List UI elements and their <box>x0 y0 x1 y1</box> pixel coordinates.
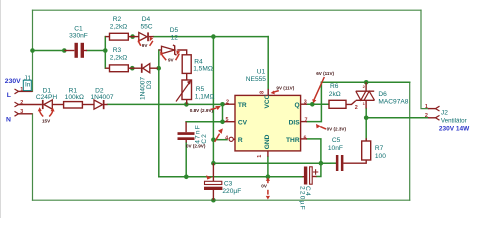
svg-text:J2: J2 <box>441 110 448 117</box>
wire bottom frame <box>33 199 410 201</box>
wire J2 pin2 row <box>366 117 428 119</box>
svg-text:VCC: VCC <box>264 94 271 108</box>
svg-text:THR: THR <box>286 137 300 144</box>
wire C2 top lead <box>185 122 187 132</box>
svg-text:R2: R2 <box>113 16 122 23</box>
node R5-TR row junction <box>184 102 189 107</box>
svg-text:3: 3 <box>20 109 23 115</box>
wire gnd rail <box>159 176 303 178</box>
node R3-D3 junction <box>130 66 135 71</box>
svg-text:220µF: 220µF <box>222 188 241 195</box>
svg-text:C1: C1 <box>74 25 83 32</box>
svg-text:330nF: 330nF <box>69 32 88 39</box>
wire Q row <box>307 103 329 105</box>
zener D5 <box>162 46 175 54</box>
wire R2-D4 lead <box>128 36 139 38</box>
red pin numbers <box>20 84 428 158</box>
svg-text:2: 2 <box>355 105 358 111</box>
wire J2 pin2 stub <box>428 117 436 119</box>
resistor R6 <box>329 100 346 108</box>
svg-text:GND: GND <box>264 134 271 149</box>
svg-text:1N4007: 1N4007 <box>90 94 113 101</box>
wire N drop <box>32 114 34 200</box>
wire VCC down to pin8 <box>267 37 269 89</box>
wire VCC rail <box>154 36 269 38</box>
node VCC rail junction <box>211 34 216 39</box>
wire R2 left lead <box>105 36 109 38</box>
capacitor C5 <box>336 155 339 171</box>
svg-text:2: 2 <box>425 113 428 119</box>
wire pin2 TR stub <box>225 103 236 105</box>
wire R7 bottom to C5 <box>343 160 366 163</box>
wire R3-D3 lead <box>128 67 141 69</box>
diode D2 <box>94 100 103 109</box>
svg-text:0V (2.9V): 0V (2.9V) <box>186 143 206 148</box>
connector J2 pin chevrons <box>436 106 440 111</box>
svg-text:CV: CV <box>238 119 248 126</box>
node R reset junction <box>211 137 216 142</box>
capacitor C4 <box>304 167 307 185</box>
wire C3 line right <box>213 162 330 164</box>
svg-text:230V 14W: 230V 14W <box>439 125 470 132</box>
svg-text:TR: TR <box>238 102 247 109</box>
svg-text:R5: R5 <box>196 86 205 93</box>
svg-text:D4: D4 <box>142 16 151 23</box>
J1 box <box>23 80 31 90</box>
svg-text:0.8V (2.9V): 0.8V (2.9V) <box>190 108 214 113</box>
svg-text:R: R <box>238 137 243 144</box>
wire D5 cathode to R4 lead <box>177 50 186 55</box>
wire D2/TR row <box>108 103 225 105</box>
wire R7 top lead <box>365 138 367 141</box>
node R2-D4 junction <box>130 34 135 39</box>
svg-text:9V (11V): 9V (11V) <box>276 86 294 91</box>
svg-text:1,5MΩ: 1,5MΩ <box>193 65 213 72</box>
resistor R3 <box>110 65 129 72</box>
trimmer R5 <box>182 80 192 100</box>
wire D5 anode lead <box>159 49 162 51</box>
svg-text:U1: U1 <box>257 68 266 75</box>
resistor R7 <box>362 141 371 160</box>
svg-text:0V (2.3V): 0V (2.3V) <box>327 126 347 131</box>
wire right riser <box>409 82 411 200</box>
wire R1-D2 lead <box>82 104 94 106</box>
wire C1 right lead <box>84 50 87 52</box>
svg-text:2,2kΩ: 2,2kΩ <box>110 55 127 62</box>
diode D4 <box>139 32 147 41</box>
wire right drop to J2 pin1 <box>421 10 428 108</box>
wire D1-R1 lead <box>52 104 63 106</box>
svg-text:D6: D6 <box>378 91 387 98</box>
node C2-rail junction <box>184 175 189 180</box>
wire left drop L <box>32 10 34 91</box>
wire vert R2/R3 tee <box>104 37 106 69</box>
wire C4 left lead <box>303 176 305 178</box>
wire pin5 CV stub <box>225 121 236 123</box>
resistor R1 <box>64 102 83 108</box>
svg-text:1: 1 <box>257 155 263 158</box>
svg-text:D3: D3 <box>146 80 153 89</box>
diode D1 <box>42 100 44 109</box>
svg-text:230V: 230V <box>5 78 21 85</box>
node C3 plus junction <box>211 161 216 166</box>
triac D6 <box>356 90 374 92</box>
wire pin7 DIS stub <box>301 121 307 123</box>
wire C3 minus lead <box>212 190 214 200</box>
wire MT1 column <box>365 109 367 142</box>
node triac MT2 junction <box>364 80 369 85</box>
svg-text:R4: R4 <box>194 58 203 65</box>
connector J1 pin chevrons <box>15 89 440 120</box>
wire C2 bottom lead <box>185 140 187 143</box>
svg-text:Ventilátor: Ventilátor <box>441 117 467 124</box>
wire triac MT2 lead <box>365 82 367 91</box>
wire C1 left lead <box>64 50 74 52</box>
resistor R2 <box>110 33 129 40</box>
svg-text:1: 1 <box>425 104 428 110</box>
svg-text:15V: 15V <box>42 119 51 124</box>
svg-text:NE555: NE555 <box>246 76 266 83</box>
wire J1 pin2 line <box>19 104 42 106</box>
node Q output junction <box>310 102 315 107</box>
wire J1 pin3 line <box>19 113 33 115</box>
svg-text:55C: 55C <box>140 23 152 30</box>
svg-text:L: L <box>7 92 11 99</box>
wire C3 plus lead <box>212 163 214 181</box>
capacitor C2 <box>178 132 195 135</box>
svg-text:0V: 0V <box>261 184 268 189</box>
svg-text:C5: C5 <box>332 137 341 144</box>
node CV junction <box>220 120 225 125</box>
wire CV row <box>186 121 224 123</box>
svg-text:2: 2 <box>20 100 23 106</box>
svg-text:In: In <box>25 81 31 88</box>
wire R5 bottom lead <box>186 100 188 105</box>
IC U1 NE555 body <box>235 95 301 150</box>
svg-text:100: 100 <box>375 153 386 160</box>
svg-text:3: 3 <box>304 100 307 106</box>
capacitor C1 <box>75 43 78 58</box>
wire D4 cathode lead <box>149 36 154 38</box>
resistor R4 <box>182 55 191 74</box>
wire pin6 THR stub <box>301 138 307 140</box>
annotation arrows <box>40 41 326 195</box>
svg-text:2: 2 <box>226 100 229 106</box>
svg-text:R7: R7 <box>375 145 384 152</box>
capacitor C3 <box>205 181 222 184</box>
svg-text:2kΩ: 2kΩ <box>329 91 341 98</box>
svg-text:1: 1 <box>363 101 366 106</box>
svg-text:6: 6 <box>304 135 307 141</box>
svg-text:1,1MΩ: 1,1MΩ <box>195 93 215 100</box>
wire D2 cathode lead <box>105 104 108 106</box>
wire DIS up-over <box>307 82 321 121</box>
node C1 left junction <box>62 48 67 53</box>
svg-text:Q: Q <box>294 102 299 109</box>
node GND rail junction <box>266 174 271 179</box>
wire GND pin down <box>267 157 269 177</box>
wire mid column <box>212 37 214 164</box>
wire pin3 Q stub <box>301 103 307 105</box>
node D3 cathode junction <box>156 66 161 71</box>
wire TR-CV tie <box>222 104 224 122</box>
svg-text:MAC97A8: MAC97A8 <box>378 99 408 106</box>
wire R3 left lead <box>105 67 109 69</box>
svg-text:5: 5 <box>226 117 229 123</box>
svg-text:100kΩ: 100kΩ <box>65 94 84 101</box>
diode D3 <box>141 64 143 73</box>
wire R6 to triac gate <box>346 101 356 105</box>
svg-text:6V (11V): 6V (11V) <box>316 71 334 76</box>
svg-text:R6: R6 <box>330 83 339 90</box>
wire triac MT1 lead <box>365 100 367 108</box>
red component leads <box>19 37 436 201</box>
svg-text:C24PH: C24PH <box>36 94 57 101</box>
svg-text:9V: 9V <box>142 43 149 48</box>
wire R4-R5 link <box>186 73 188 80</box>
svg-text:2: 2 <box>363 84 366 89</box>
svg-text:C3: C3 <box>224 180 233 187</box>
svg-text:4: 4 <box>225 135 228 141</box>
wire R row <box>213 139 227 141</box>
red annotations <box>42 43 346 189</box>
node L-C1 junction <box>30 48 35 53</box>
svg-text:N: N <box>6 116 11 123</box>
wire pin1 GND stub <box>267 151 269 157</box>
blue labels <box>5 78 470 132</box>
wire pin4 R stub <box>233 138 235 140</box>
node C3-N junction <box>211 198 216 203</box>
wire D3 anode lead <box>150 67 158 69</box>
wire C2 bottom to rail <box>185 143 187 177</box>
svg-text:7: 7 <box>305 117 308 123</box>
node triac MT1 junction <box>364 116 369 121</box>
svg-text:C2: C2 <box>201 133 208 144</box>
wire C5 left lead <box>335 162 337 164</box>
wire DIS top line <box>321 81 409 83</box>
svg-text:1: 1 <box>20 87 23 93</box>
node TR junction <box>220 102 225 107</box>
page edge <box>0 0 1 218</box>
wire C4 right lead <box>312 176 316 178</box>
node R2/R3 tee junction <box>103 48 108 53</box>
wire top frame <box>33 9 422 11</box>
svg-text:D5: D5 <box>170 27 179 34</box>
wire pin8 VCC stub <box>267 89 269 96</box>
reset pin circle <box>229 137 233 141</box>
wire C5 left <box>331 162 336 164</box>
wire D3 column down <box>158 50 160 177</box>
node THR-C5 junction <box>319 161 324 166</box>
svg-text:8: 8 <box>260 91 266 94</box>
wire C1 to R2/R3 tee <box>87 50 105 52</box>
svg-text:9V: 9V <box>168 57 175 62</box>
svg-text:10nF: 10nF <box>328 145 343 152</box>
wire THR path <box>307 139 321 177</box>
svg-text:C4: C4 <box>304 186 311 197</box>
svg-text:R3: R3 <box>113 47 122 54</box>
wire J1 pin1 line <box>19 90 33 92</box>
svg-text:DIS: DIS <box>289 119 301 126</box>
svg-text:12: 12 <box>171 34 179 41</box>
wire J2 pin1 stub <box>428 108 436 110</box>
wire C1 row left <box>33 50 65 52</box>
svg-text:2,2kΩ: 2,2kΩ <box>110 23 127 30</box>
